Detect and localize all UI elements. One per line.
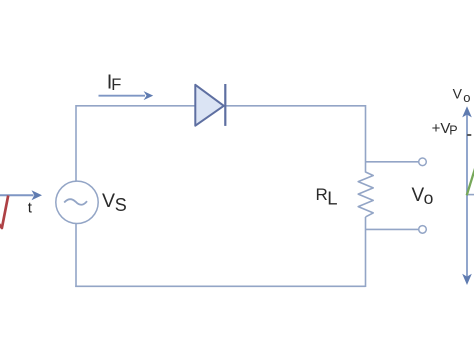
svg-text:V: V: [412, 185, 425, 206]
label VS: [102, 190, 127, 215]
terminal top: [419, 158, 427, 166]
label Vo (output): [412, 185, 434, 208]
current arrow IF: [99, 91, 154, 100]
wire left upper: [75, 105, 77, 181]
output Vo axis (vertical, right graph): [462, 106, 472, 285]
diode D1: [195, 84, 225, 126]
wire top right: [224, 105, 366, 107]
input sine waveform (red, clipped): [0, 196, 8, 229]
terminal bottom: [419, 226, 427, 234]
svg-text:V: V: [453, 86, 463, 102]
resistor RL: [358, 172, 373, 217]
label Vo (graph): [453, 86, 471, 105]
wire bottom: [75, 285, 365, 287]
tick +VP: [467, 134, 471, 136]
wire right lower: [365, 217, 367, 287]
svg-text:F: F: [111, 76, 121, 94]
label +VP: [432, 120, 458, 137]
wire left lower: [75, 223, 77, 287]
output t-axis stub: [467, 194, 474, 196]
label IF: [107, 71, 121, 94]
svg-text:+V: +V: [432, 120, 451, 137]
voltage source VS: [56, 181, 98, 223]
input t-axis arrow: [0, 190, 42, 200]
wire output tap top: [366, 161, 419, 163]
svg-text:o: o: [424, 188, 434, 208]
wire top left: [76, 105, 195, 107]
svg-text:t: t: [28, 199, 33, 216]
svg-text:R: R: [316, 185, 328, 204]
svg-text:P: P: [449, 124, 457, 138]
svg-text:L: L: [327, 188, 337, 209]
svg-text:V: V: [102, 190, 115, 212]
wire output tap bottom: [366, 228, 419, 230]
svg-text:S: S: [115, 195, 127, 215]
output waveform (green, clipped): [467, 168, 474, 196]
svg-text:o: o: [463, 90, 470, 105]
label RL: [316, 185, 338, 209]
wire right upper: [365, 105, 367, 173]
